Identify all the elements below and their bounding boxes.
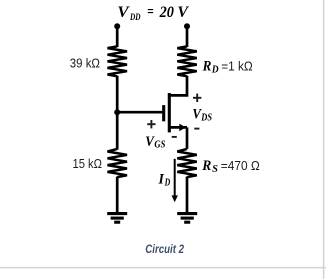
svg-text:Circuit 2: Circuit 2 [145,242,184,256]
svg-text:V: V [117,4,130,21]
wire left middle [116,76,119,150]
svg-text:GS: GS [154,140,165,151]
resistor R2 15k zigzag [108,149,128,177]
svg-text:R: R [201,158,211,174]
ground left [107,214,127,223]
svg-text:=1 kΩ: =1 kΩ [221,59,253,74]
svg-text:15 kΩ: 15 kΩ [73,156,103,171]
resistor RS zigzag [177,149,197,177]
svg-text:39 kΩ: 39 kΩ [70,56,100,71]
wire gate horizontal [117,111,162,114]
transistor Q1 channel bar [168,93,171,132]
current arrow ID [174,159,176,196]
svg-text:D: D [164,178,170,189]
wire left top [116,26,119,47]
transistor Q1 source lead [169,126,187,129]
resistor R1 39k zigzag [108,46,128,76]
svg-text:DD: DD [129,12,140,23]
minus of VGS [172,136,177,138]
wire source to RS [186,127,189,148]
wire right top [186,26,189,47]
svg-text:20: 20 [159,4,174,21]
svg-text:V: V [177,4,189,21]
plus of VGS [147,120,155,128]
frame right border [323,0,325,279]
frame bottom border [0,267,326,269]
node VDD left dot [114,23,120,29]
svg-text:R: R [202,59,212,75]
svg-text:=470 Ω: =470 Ω [221,158,260,173]
svg-text:=: = [147,3,154,20]
plus of VDS [193,94,201,102]
transistor Q1 gate bar [162,105,165,121]
resistor RD zigzag [177,46,197,76]
ground right [177,214,197,223]
transistor Q1 source arrow [179,124,185,132]
wire drain corner [169,76,187,96]
svg-text:D: D [211,64,219,75]
node gate junction dot [114,109,120,115]
svg-text:DS: DS [200,113,212,124]
node VDD right dot [184,23,190,29]
minus of VDS [194,128,199,130]
wire right bottom [186,177,189,214]
label VDD = 20 V [117,3,189,23]
wire left bottom [116,177,119,214]
svg-text:S: S [212,164,218,175]
